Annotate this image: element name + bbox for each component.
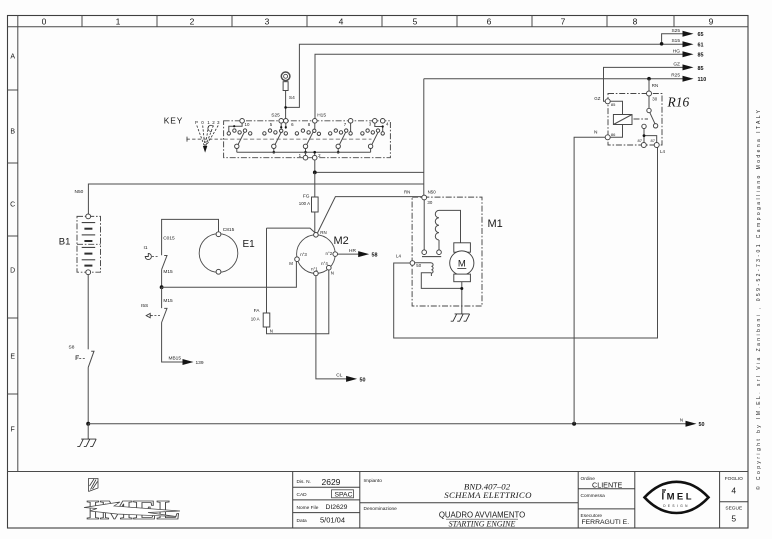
svg-text:B: B [10,129,15,136]
svg-text:I5S: I5S [141,303,148,309]
key switch common dashed line [224,138,372,140]
svg-text:87: 87 [638,138,643,143]
svg-text:110: 110 [698,77,707,83]
motor M [450,243,474,282]
battery B1 [59,214,101,275]
junction S25/S15 [660,42,664,46]
wire N to R16 pin86 [574,137,605,423]
svg-text:61: 61 [698,43,704,49]
wire HG: key H15 terminal to sheet arrow 85 [315,54,683,118]
title block grid [293,472,748,529]
IMEL logo lightning [84,502,180,517]
wire S25 branch stub [662,34,683,44]
svg-text:50: 50 [416,263,421,268]
svg-text:10: 10 [245,122,250,127]
key S4 [281,72,295,101]
key position selector P 0 1 2 3 [187,120,223,152]
svg-text:N: N [270,329,273,334]
pin RN [314,233,319,238]
svg-text:S15: S15 [671,38,680,44]
switch I5S [141,287,173,322]
svg-text:STARTING ENGINE: STARTING ENGINE [449,519,516,528]
svg-text:RN: RN [652,83,658,88]
switch S8 [69,345,95,368]
IMEL logo emblem small [89,479,99,492]
svg-text:M2: M2 [334,235,349,247]
svg-text:H15: H15 [317,113,326,119]
pin n2 / HR [333,252,338,257]
svg-text:5: 5 [413,17,418,27]
pins 87 [641,143,646,148]
svg-text:58: 58 [372,253,378,259]
svg-text:IMEL: IMEL [662,492,692,503]
svg-text:0: 0 [42,17,47,27]
svg-text:Denominazione: Denominazione [364,506,398,512]
svg-text:F: F [11,427,15,434]
junction FG tap [313,171,317,175]
svg-text:© Copyright by IM.EL. srl Via: © Copyright by IM.EL. srl Via Zaniboni ,… [755,109,762,490]
svg-text:6: 6 [487,17,492,27]
svg-text:85: 85 [698,66,704,72]
pin 85 [605,99,610,104]
pole 8 contacts [295,123,320,153]
svg-text:S25: S25 [671,28,680,34]
fuse FG 100A [314,172,316,197]
junction M15 [160,285,164,289]
svg-text:8: 8 [633,17,638,27]
svg-text:100 A: 100 A [299,201,310,206]
junction N/ground [86,422,90,426]
svg-text:N: N [680,418,683,423]
svg-text:FG: FG [303,194,310,200]
svg-text:2: 2 [190,17,195,27]
wire R16 pin30 drop [648,79,650,91]
svg-text:SCHEMA ELETTRICO: SCHEMA ELETTRICO [444,490,532,500]
svg-text:GZ: GZ [594,96,600,101]
pole 3-4 contacts [361,123,385,152]
IMEL oval logo [645,482,709,513]
svg-text:7: 7 [561,17,566,27]
svg-text:M15: M15 [163,269,173,275]
wire N from FA to M2 pin n4 [267,270,329,334]
svg-text:3: 3 [265,17,270,27]
pole 10 contacts [227,123,252,152]
wire motor to ground [461,282,463,314]
solenoid contact pair [422,250,427,255]
wire S15 net: key S25 terminal to sheet arrow 61 [286,44,683,107]
fuse FA 10A [266,228,268,313]
svg-text:n°3: n°3 [300,252,307,257]
svg-text:M: M [289,261,293,266]
svg-text:N: N [594,130,598,136]
pole 5-6 contacts [263,123,288,153]
svg-text:L4: L4 [396,254,401,259]
left coordinate ticks [8,90,18,394]
svg-text:S25: S25 [271,113,280,119]
svg-text:30: 30 [427,200,432,205]
lamp E1 [199,227,255,274]
arrow GZ to 85 [683,64,694,70]
svg-text:SEGUE: SEGUE [725,506,742,512]
svg-text:87: 87 [651,138,656,143]
svg-text:M: M [458,259,466,270]
contact bridge [422,256,441,258]
svg-text:HG: HG [673,48,680,54]
svg-text:DESIGN: DESIGN [663,504,690,508]
pin 30 [422,195,427,200]
pin 1 [305,152,307,155]
wire HR to sheet arrow 58 [338,253,359,255]
junction motor/ground [460,287,463,290]
svg-text:L4: L4 [660,149,665,154]
relay R16 block [608,94,662,146]
arrow S25 to 65 [683,31,694,37]
svg-text:N50: N50 [428,190,437,195]
svg-text:B1: B1 [59,237,71,248]
pole 7 contacts [329,123,353,153]
svg-text:FERRAGUTI E.: FERRAGUTI E. [582,519,630,526]
wire S8 to N node [87,367,89,423]
arrow S15 to 61 [683,41,694,47]
wire R25: N50 net to sheet arrow 110 [424,78,683,80]
svg-text:50: 50 [699,422,705,428]
svg-text:D: D [10,268,15,275]
svg-text:10 A: 10 A [251,316,260,321]
svg-text:P: P [195,120,198,125]
svg-text:4: 4 [339,17,344,27]
svg-text:Commessa: Commessa [581,493,606,499]
left coordinate letters [10,54,15,434]
ground chassis M1 [451,314,470,321]
svg-text:Nome File: Nome File [297,505,319,511]
svg-text:S4: S4 [289,95,295,101]
key switch S25/H15 block [224,121,391,158]
wire L4 route M1 pin50 to R16 pin87 [394,148,658,339]
svg-text:85: 85 [698,53,704,59]
svg-text:A: A [10,54,15,61]
wire N bus to sheet arrow 50 [88,423,686,425]
svg-text:139: 139 [196,360,204,366]
wire N50 vertical to M1 pin30 [423,79,425,196]
junction S4/S15 [284,106,287,109]
svg-text:Impianto: Impianto [364,478,383,484]
svg-text:C015: C015 [163,236,175,242]
pin n4 / N [327,265,332,270]
svg-text:SPAC: SPAC [335,491,353,498]
terminal 7 [348,119,353,124]
wire I1 to junction [161,270,163,288]
pin 86 [605,135,610,140]
starter motor M1 block [412,197,482,306]
svg-text:n°1: n°1 [311,266,318,271]
wire pin30 to contact [423,200,425,250]
svg-text:RN: RN [320,230,326,235]
wire MB15 to sheet arrow 139 [162,323,183,363]
svg-text:M15: M15 [163,298,173,304]
svg-text:R16: R16 [667,95,690,110]
svg-text:9: 9 [709,17,714,27]
arrow R25 to 110 [683,76,694,82]
svg-text:Esecutore: Esecutore [581,513,603,519]
svg-text:FOGLIO: FOGLIO [725,476,743,482]
svg-text:M1: M1 [488,218,503,230]
svg-text:HR: HR [349,248,356,254]
pin n1 [314,271,319,276]
svg-text:E: E [10,354,15,361]
ground chassis left [77,424,96,447]
pin n3 / M [295,257,300,262]
terminal H15 / 8 [313,119,318,124]
svg-text:E1: E1 [243,239,256,250]
svg-text:Data: Data [297,518,307,524]
svg-text:CAD: CAD [297,492,308,498]
svg-text:KEY: KEY [164,116,183,126]
key switch bottom bus [237,151,371,153]
top coordinate ticks [82,16,674,27]
svg-text:GZ: GZ [673,61,680,67]
svg-text:5/01/04: 5/01/04 [320,515,345,524]
top coordinate numbers [42,17,714,27]
junction N / R16 branch [572,422,576,426]
wire E1/I1 branch from I1 [162,219,219,255]
svg-text:65: 65 [698,32,704,38]
svg-text:CL: CL [336,372,342,378]
wire E1 branch to M2 RN [267,228,315,232]
pull-in winding [415,263,462,289]
IMEL logo text [86,495,180,525]
arrow HG to 85 [683,51,694,57]
svg-text:n°2: n°2 [326,251,333,256]
wire N50 horizontal from battery [88,184,423,214]
wire S4 to key terminal S25 [285,91,287,119]
svg-text:CLIENTE: CLIENTE [592,480,623,489]
svg-text:S8: S8 [69,345,75,351]
relay switch [648,96,650,108]
solenoid M2 [289,230,348,276]
svg-text:R25: R25 [671,73,680,79]
svg-text:30: 30 [652,96,657,101]
svg-text:C: C [10,202,15,209]
svg-text:5: 5 [731,514,736,524]
switch I1 [144,236,175,275]
pin 30 R16 [647,91,652,96]
svg-text:2629: 2629 [322,477,341,487]
terminal 10 [240,119,245,124]
pin 2 [314,152,316,155]
svg-text:FA: FA [254,308,261,314]
relay coil [613,115,632,125]
svg-text:RN: RN [404,190,410,195]
wire GZ: relay R16 pin85 to sheet arrow 85 [604,67,684,101]
terminal S25 pair [279,119,284,124]
svg-text:C815: C815 [223,227,235,233]
wire RN to M1 pin30 [317,197,421,234]
field winding [435,210,460,250]
svg-text:86: 86 [611,132,616,137]
terminals 3 and 4 [373,119,378,124]
svg-text:N: N [331,270,334,275]
svg-text:DI2629: DI2629 [326,504,348,511]
svg-text:I1: I1 [144,245,148,251]
wire key pin2 to N50 net [315,160,424,172]
svg-text:50: 50 [360,377,366,383]
junction R25/R16 [647,77,651,81]
wire CL to sheet arrow 50 [316,276,347,379]
wire M15 to M2 pin M [162,262,297,288]
pin 50 / L4 [410,261,415,266]
svg-text:1: 1 [116,17,121,27]
svg-text:85: 85 [611,102,616,107]
svg-text:Dis. N.: Dis. N. [297,479,311,485]
svg-text:N50: N50 [75,189,84,195]
svg-text:QUADRO AVVIAMENTO: QUADRO AVVIAMENTO [439,510,525,519]
svg-text:n°4: n°4 [321,261,328,266]
svg-text:MB15: MB15 [168,356,181,362]
wire B1 to S8 [87,275,89,350]
svg-text:4: 4 [731,486,736,496]
